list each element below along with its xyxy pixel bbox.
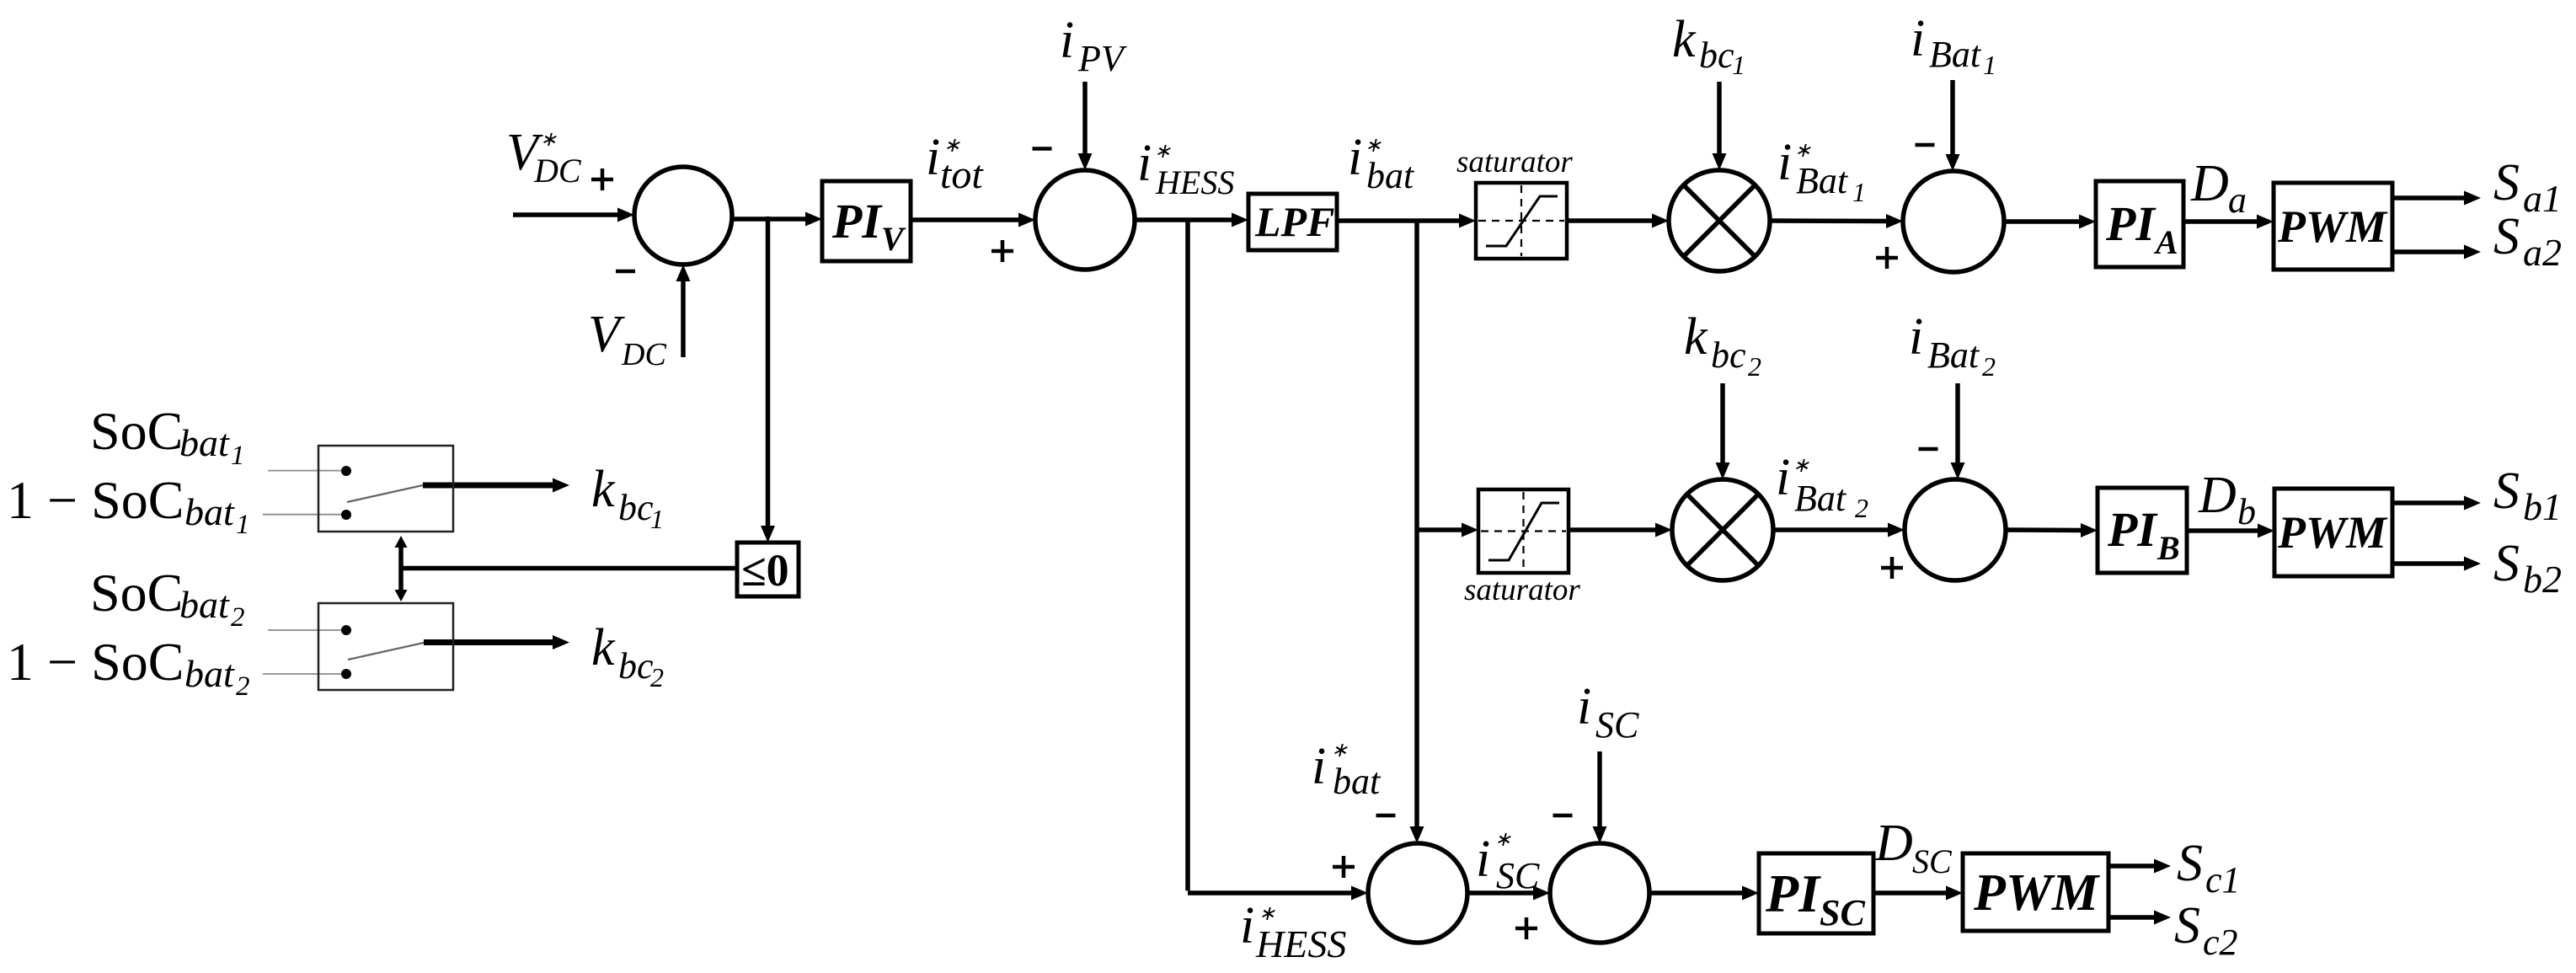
svg-text:LPF: LPF xyxy=(1254,198,1334,245)
wire SW1 output (kbc1) xyxy=(423,478,569,493)
wire S1 output to PIV block xyxy=(732,212,822,227)
node label Sc1 xyxy=(2177,835,2241,901)
wire multiplier M2 output (iBat2) to summing junction S4 xyxy=(1773,523,1905,537)
svg-text:∗: ∗ xyxy=(1365,135,1382,157)
wire PWM B output Sb2 xyxy=(2392,557,2481,571)
wire saturator 2 output to multiplier M2 xyxy=(1569,523,1672,537)
node label iPV xyxy=(1060,12,1128,79)
plus sign at S6 xyxy=(1515,917,1537,939)
svg-text:Bat: Bat xyxy=(1796,160,1849,201)
minus sign at S4 xyxy=(1919,447,1938,452)
svg-text:1: 1 xyxy=(1732,50,1745,80)
node label Sb1 xyxy=(2493,462,2562,528)
summing junction S1 (VDC error) xyxy=(634,167,732,265)
summing junction S3 (iBat1 error) xyxy=(1903,171,2004,272)
node label VDC xyxy=(588,306,666,372)
svg-text:bc: bc xyxy=(1699,35,1734,76)
svg-text:bat: bat xyxy=(184,490,235,533)
wire S2 output to LPF block xyxy=(1135,213,1248,227)
plus sign at S1 xyxy=(591,168,613,190)
input label 1-SoCbat1 xyxy=(7,470,250,540)
node label i*bat (row3) xyxy=(1312,738,1382,802)
svg-text:bat: bat xyxy=(1366,155,1415,196)
LPF block xyxy=(1248,194,1337,250)
wire PWM A output Sa2 xyxy=(2392,245,2481,259)
wire iSC input down into summing junction S6 xyxy=(1593,751,1607,843)
node label i*SC xyxy=(1476,829,1540,896)
svg-text:b2: b2 xyxy=(2523,558,2562,601)
svg-text:DC: DC xyxy=(621,337,666,372)
wire PWM C output Sc1 xyxy=(2108,859,2171,874)
svg-text:≤0: ≤0 xyxy=(741,545,789,596)
minus sign at S1 xyxy=(616,270,635,274)
svg-text:∗: ∗ xyxy=(1154,141,1171,163)
svg-text:2: 2 xyxy=(1982,351,1996,382)
node label Da xyxy=(2190,155,2247,221)
svg-text:k: k xyxy=(591,461,616,518)
svg-text:bc: bc xyxy=(618,487,654,528)
node label Db xyxy=(2198,467,2256,532)
svg-text:1: 1 xyxy=(231,441,245,471)
svg-text:k: k xyxy=(591,619,616,676)
comparator block &#8804;0 xyxy=(737,543,799,596)
PWM block C xyxy=(1963,853,2108,931)
svg-text:2: 2 xyxy=(1855,493,1868,523)
svg-text:S: S xyxy=(2493,535,2520,592)
svg-text:B: B xyxy=(2156,529,2180,567)
svg-text:∗: ∗ xyxy=(1793,455,1809,477)
node label i*Bat1 xyxy=(1777,134,1866,207)
svg-text:tot: tot xyxy=(940,152,984,197)
svg-text:2: 2 xyxy=(650,662,664,692)
wire branch down from S2 output (iHESS) to row-3 summing junction S5 xyxy=(1188,218,1368,901)
minus sign at S3 xyxy=(1916,143,1935,147)
svg-text:Bat: Bat xyxy=(1794,478,1847,519)
svg-text:i: i xyxy=(1240,897,1254,954)
svg-text:bc: bc xyxy=(618,645,654,687)
svg-text:V: V xyxy=(881,220,906,258)
wire S4 output to PIB block xyxy=(2006,523,2098,537)
svg-text:S: S xyxy=(2493,462,2520,520)
PI controller PISC block xyxy=(1759,853,1873,933)
svg-text:bat: bat xyxy=(1333,761,1382,802)
wire PWM B output Sb1 xyxy=(2392,496,2481,511)
wire kbc2 input down into multiplier M2 xyxy=(1716,383,1730,479)
node label iBat2 xyxy=(1909,308,1996,382)
svg-text:i: i xyxy=(1577,678,1591,735)
svg-text:PWM: PWM xyxy=(2277,507,2388,558)
wire iPV input down into summing junction S2 xyxy=(1078,82,1093,170)
svg-text:PI: PI xyxy=(831,194,883,249)
svg-text:1: 1 xyxy=(1983,50,1996,80)
svg-text:1 − SoC: 1 − SoC xyxy=(7,470,184,530)
svg-text:∗: ∗ xyxy=(1794,140,1811,162)
summing junction S2 (iPV subtraction) xyxy=(1035,170,1135,270)
PI controller PIB block xyxy=(2098,488,2187,573)
svg-text:∗: ∗ xyxy=(1494,829,1511,851)
svg-text:PI: PI xyxy=(1765,863,1821,923)
wire tap from ibat branch into saturator 2 xyxy=(1417,523,1478,537)
svg-text:a1: a1 xyxy=(2523,177,2562,220)
output label kbc2 (left) xyxy=(591,619,664,692)
input label SoCbat2 xyxy=(90,563,245,633)
svg-text:i: i xyxy=(1137,135,1152,192)
summing junction S4 (iBat2 error) xyxy=(1905,479,2006,580)
svg-text:D: D xyxy=(1874,815,1913,872)
svg-text:i: i xyxy=(1777,134,1792,191)
svg-text:2: 2 xyxy=(231,602,245,633)
svg-text:D: D xyxy=(2198,467,2237,524)
saturator 1 block xyxy=(1476,183,1567,259)
svg-text:1: 1 xyxy=(650,504,664,534)
svg-text:i: i xyxy=(926,129,940,186)
summing junction S6 (iSC error) xyxy=(1550,843,1649,943)
PWM block B xyxy=(2274,489,2392,576)
plus sign at S3 xyxy=(1876,247,1898,269)
svg-text:bat: bat xyxy=(179,421,230,464)
wire LPF output to saturator 1 xyxy=(1337,214,1476,228)
wire PIB output (Db) to PWM block B xyxy=(2187,524,2274,538)
svg-text:1: 1 xyxy=(1852,177,1866,207)
svg-text:SoC: SoC xyxy=(90,401,183,461)
svg-text:i: i xyxy=(1776,449,1790,506)
label saturator 2 xyxy=(1464,573,1580,607)
wire branch down from LPF output (ibat) to row-3 summing junction S5 top xyxy=(1410,219,1424,843)
node label i*HESS xyxy=(1137,135,1234,201)
PI controller PIA block xyxy=(2096,181,2183,267)
node label kbc1 (top) xyxy=(1672,11,1745,80)
PI controller PIV block xyxy=(822,181,911,261)
PWM block A xyxy=(2274,183,2392,270)
svg-text:S: S xyxy=(2493,208,2520,265)
saturator 2 block xyxy=(1478,489,1569,573)
svg-text:SC: SC xyxy=(1496,855,1540,896)
wire S3 output to PIA block xyxy=(2004,215,2096,229)
svg-text:SoC: SoC xyxy=(90,563,183,623)
svg-text:Bat: Bat xyxy=(1927,334,1980,376)
svg-text:S: S xyxy=(2174,897,2200,954)
minus sign at S6 xyxy=(1553,814,1573,818)
input label SoCbat1 xyxy=(90,401,245,471)
node label kbc2 (top) xyxy=(1684,308,1761,382)
wire PWM A output Sa1 xyxy=(2392,191,2481,206)
wire PIA output (Da) to PWM block A xyxy=(2183,215,2274,229)
svg-text:SC: SC xyxy=(1912,842,1953,880)
svg-text:∗: ∗ xyxy=(540,129,557,151)
wire VDC feedback up into summing junction S1 xyxy=(676,265,691,357)
svg-text:DC: DC xyxy=(533,152,582,190)
wire PIV output to summing junction S2 xyxy=(911,213,1035,227)
svg-text:A: A xyxy=(2153,223,2178,261)
svg-text:1 − SoC: 1 − SoC xyxy=(7,632,184,692)
node label V*DC xyxy=(506,124,582,190)
svg-text:a: a xyxy=(2228,179,2247,221)
input label 1-SoCbat2 xyxy=(7,632,250,702)
minus sign at S2 xyxy=(1033,147,1052,151)
svg-text:HESS: HESS xyxy=(1155,163,1234,201)
wire SW2 output (kbc2) xyxy=(424,635,569,650)
wire PWM C output Sc2 xyxy=(2108,911,2171,925)
wire 1-SoCbat1 stub into SW1 lower contact xyxy=(263,514,344,516)
wire kbc1 input down into multiplier M1 xyxy=(1713,82,1727,170)
svg-text:∗: ∗ xyxy=(1331,740,1348,762)
wire double-headed arrow between switch SW1 and switch SW2 xyxy=(395,536,408,601)
wire 1-SoCbat2 stub into SW2 lower contact xyxy=(263,673,344,675)
node label i*tot xyxy=(926,129,984,197)
switch SW2 box xyxy=(318,603,453,690)
svg-text:bat: bat xyxy=(184,652,235,695)
svg-text:saturator: saturator xyxy=(1456,145,1573,179)
svg-text:PWM: PWM xyxy=(1973,864,2100,922)
node label Sc2 xyxy=(2174,897,2238,963)
multiplier M2 (kbc2 x ibat) xyxy=(1672,479,1773,580)
label saturator 1 xyxy=(1456,145,1573,179)
minus sign at S5 xyxy=(1376,814,1396,818)
wire comparator output to switches (horizontal) xyxy=(401,566,737,571)
svg-text:S: S xyxy=(2493,154,2520,211)
svg-text:2: 2 xyxy=(236,671,250,702)
svg-text:bc: bc xyxy=(1711,334,1746,376)
svg-text:PV: PV xyxy=(1077,38,1128,79)
node label iSC xyxy=(1577,678,1639,746)
svg-text:k: k xyxy=(1672,11,1697,68)
svg-text:bat: bat xyxy=(179,583,230,626)
svg-text:PI: PI xyxy=(2105,196,2156,251)
wire multiplier M1 output (iBat1) to summing junction S3 xyxy=(1770,214,1903,228)
svg-text:HESS: HESS xyxy=(1255,922,1346,965)
node label DSC xyxy=(1874,815,1953,880)
svg-text:SC: SC xyxy=(1595,704,1639,746)
svg-text:PI: PI xyxy=(2107,502,2158,557)
wire SW1 lever xyxy=(347,485,423,502)
wire SW2 lever xyxy=(348,643,425,660)
node label i*HESS (row3) xyxy=(1240,897,1346,965)
svg-text:1: 1 xyxy=(236,510,250,540)
node label iBat1 xyxy=(1911,10,1996,80)
svg-text:b1: b1 xyxy=(2523,485,2562,528)
svg-text:V: V xyxy=(588,306,625,363)
wire PISC output (DSC) to PWM block C xyxy=(1873,886,1963,901)
svg-text:i: i xyxy=(1476,831,1490,888)
wire SoCbat2 stub into SW2 upper contact xyxy=(268,629,344,631)
svg-text:2: 2 xyxy=(1748,351,1761,382)
svg-text:i: i xyxy=(1060,12,1074,69)
wire S6 output to PISC block xyxy=(1649,886,1759,901)
node label Sa2 xyxy=(2493,208,2562,274)
node label i*Bat2 xyxy=(1776,449,1868,523)
wire V*DC input into summing junction S1 xyxy=(513,208,634,222)
wire S5 output (iSC) to summing junction S6 xyxy=(1467,886,1550,901)
switch SW2 contacts xyxy=(341,625,351,679)
svg-text:Bat: Bat xyxy=(1929,34,1982,75)
svg-text:i: i xyxy=(1911,10,1925,67)
svg-text:k: k xyxy=(1684,308,1708,366)
node label i*bat xyxy=(1348,129,1415,196)
plus sign at S2 xyxy=(991,240,1013,262)
wire saturator 1 output to multiplier M1 xyxy=(1567,214,1669,228)
svg-text:a2: a2 xyxy=(2523,231,2562,274)
output label kbc1 (left) xyxy=(591,461,664,534)
node label Sa1 xyxy=(2493,154,2562,220)
svg-text:SC: SC xyxy=(1820,892,1865,933)
svg-text:i: i xyxy=(1348,129,1362,186)
svg-text:i: i xyxy=(1909,308,1923,366)
svg-text:saturator: saturator xyxy=(1464,573,1580,607)
svg-text:b: b xyxy=(2237,491,2256,532)
wire branch down from S1 output to comparator &#8804;0 xyxy=(761,217,775,543)
plus sign at S5 xyxy=(1333,856,1355,878)
svg-text:c2: c2 xyxy=(2203,922,2238,963)
switch SW1 box xyxy=(318,446,453,532)
node label Sb2 xyxy=(2493,535,2562,601)
svg-text:D: D xyxy=(2190,155,2229,212)
multiplier M1 (kbc1 x ibat) xyxy=(1669,170,1770,271)
wire SoCbat1 stub into SW1 upper contact xyxy=(268,470,344,472)
svg-text:i: i xyxy=(1312,738,1326,795)
svg-text:S: S xyxy=(2177,835,2203,892)
plus sign at S4 xyxy=(1881,557,1903,579)
wire iBat1 input down into summing junction S3 xyxy=(1946,80,1960,171)
summing junction S5 (iSC* = iHESS - ibat) xyxy=(1368,843,1467,943)
switch SW1 contacts xyxy=(341,466,351,520)
wire iBat2 input down into summing junction S4 xyxy=(1951,383,1965,479)
svg-text:c1: c1 xyxy=(2205,859,2241,901)
svg-text:PWM: PWM xyxy=(2277,201,2388,252)
